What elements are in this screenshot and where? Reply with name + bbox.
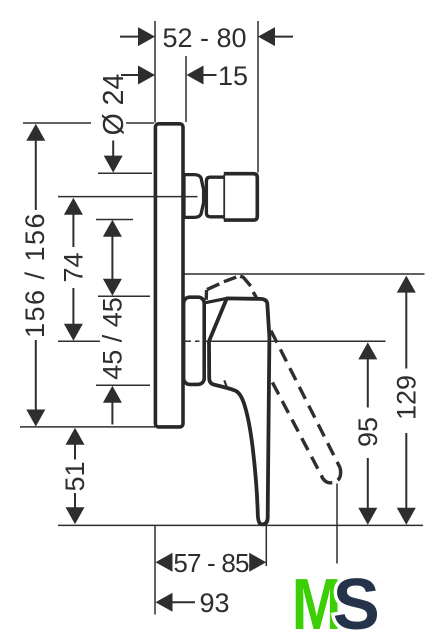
dim 51: [66, 428, 85, 445]
dashed lever upper line: [271, 331, 340, 468]
centerline handle y=341: [184, 340, 191, 342]
svg-text:52 - 80: 52 - 80: [162, 23, 246, 53]
extension line x=266 lever tip: [265, 525, 267, 566]
handle sleeve: [184, 297, 205, 384]
dim 156/156: [26, 124, 45, 141]
extension line x=155 bottom: [154, 525, 156, 614]
spout block: [224, 174, 257, 220]
baseline y=525: [58, 524, 423, 526]
extension line y=296 handle top ref: [98, 295, 150, 297]
extension line y=123 right segment: [126, 122, 154, 124]
extension line y=219: [96, 219, 133, 221]
extension line y=385 sleeve bottom ref: [96, 384, 150, 386]
svg-text:Ø 24: Ø 24: [98, 73, 130, 135]
dim 52-80: [120, 36, 139, 38]
dim 93: [156, 593, 173, 612]
extension line y=173 spout top ref: [98, 172, 152, 174]
dim 95: [358, 342, 377, 359]
lever joint tick: [224, 380, 227, 387]
dashed lever lower line: [272, 382, 322, 477]
extension line y=341 left: [58, 340, 100, 342]
dim 57-85: [156, 553, 173, 572]
extension line y=427 plate bottom ref: [20, 426, 155, 428]
handle neck edge: [205, 299, 226, 303]
dim 74: [64, 198, 83, 215]
dim 45/45: [103, 220, 122, 237]
wall plate: [155, 124, 183, 427]
extension line x=186: [185, 56, 187, 122]
extension line x=258: [257, 21, 259, 173]
extension line x=155 top: [154, 21, 156, 123]
centerline spout y=197: [58, 196, 198, 198]
svg-text:74: 74: [58, 252, 88, 282]
extension line x=337 dashed lever tip: [336, 484, 338, 564]
handle with lever: [209, 298, 269, 524]
svg-text:S: S: [333, 565, 380, 640]
dashed handle top position: [206, 276, 256, 300]
svg-text:156 / 156: 156 / 156: [20, 212, 50, 338]
extension line y=123 left segment: [23, 122, 91, 124]
svg-text:45 / 45: 45 / 45: [97, 297, 127, 380]
spout cone: [184, 175, 204, 218]
svg-text:129: 129: [392, 375, 422, 420]
svg-text:51: 51: [60, 461, 90, 491]
svg-text:15: 15: [218, 61, 248, 91]
dashed lever end cap: [322, 468, 341, 483]
spout nut: [206, 177, 224, 217]
svg-text:95: 95: [353, 417, 383, 447]
svg-text:93: 93: [199, 588, 229, 618]
dim 129: [397, 276, 416, 293]
dim 15: [121, 74, 139, 76]
extension line y=274 dashed-handle top ref: [184, 273, 425, 275]
svg-text:57 - 85: 57 - 85: [173, 548, 249, 578]
